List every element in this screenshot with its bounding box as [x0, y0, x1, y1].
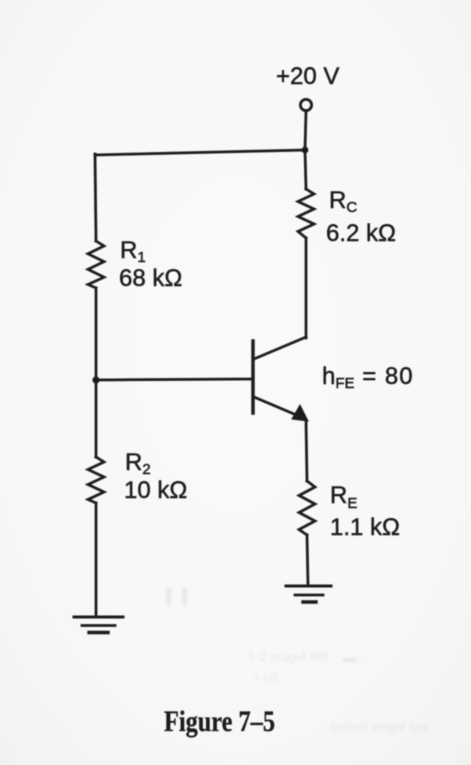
resistor Rc	[298, 189, 314, 238]
wire: supply circle to top junction	[305, 111, 306, 150]
resistor R2	[88, 457, 104, 503]
ground left	[74, 616, 123, 619]
wire: left vertical middle (R1 to R2)	[95, 288, 98, 457]
svg-text:▌▐: ▌▐	[166, 587, 188, 606]
svg-text:bsbsol Isngia tuq: bsbsol Isngia tuq	[330, 719, 428, 734]
wire: left vertical lower (R2 to ground)	[95, 503, 98, 617]
resistor R1	[88, 241, 104, 288]
svg-text:1.1 kΩ: 1.1 kΩ	[330, 514, 400, 541]
svg-text:10 kΩ: 10 kΩ	[124, 477, 187, 504]
wire: RE to right ground	[307, 535, 308, 586]
svg-text:+ kΩ: + kΩ	[253, 670, 278, 684]
wire: base horizontal	[96, 379, 252, 380]
node top junction dot	[302, 147, 309, 154]
wire: emitter vertical (arrow to RE)	[306, 420, 307, 481]
wire: top horizontal	[95, 150, 305, 155]
svg-text:5-2 srugiA RB: 5-2 srugiA RB	[248, 649, 328, 664]
wire: collector vertical (Rc bottom to transistor)	[305, 238, 308, 338]
svg-text:68 kΩ: 68 kΩ	[119, 265, 182, 292]
node base junction dot	[92, 376, 99, 383]
resistor RE	[299, 481, 315, 535]
supply terminal circle	[300, 99, 311, 110]
wire: left vertical upper (to R1)	[95, 154, 96, 241]
svg-text:Figure 7–5: Figure 7–5	[164, 705, 275, 738]
svg-text:6.2 kΩ: 6.2 kΩ	[326, 220, 396, 247]
svg-text:+20 V: +20 V	[276, 63, 339, 90]
svg-text:▬▫: ▬▫	[343, 650, 361, 665]
ground right	[286, 585, 331, 588]
bleed-through ghost text (faint)	[166, 587, 428, 734]
wire: top junction to Rc	[305, 150, 306, 189]
transistor Q1	[251, 341, 254, 413]
